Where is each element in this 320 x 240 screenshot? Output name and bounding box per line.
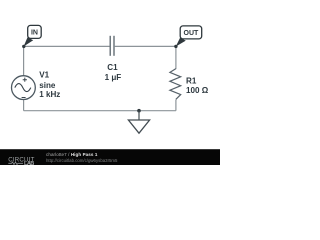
footer title text <box>46 152 97 157</box>
node IN junction dot <box>22 45 25 48</box>
voltage source V1 minus sign <box>22 97 26 99</box>
node OUT flag pointer <box>176 38 186 47</box>
CircuitLab logo wordmark <box>0 1 45 18</box>
ground triangle <box>128 120 149 133</box>
capacitor C1 value labels <box>105 63 122 82</box>
ground stem <box>138 111 140 120</box>
ground junction dot <box>137 109 141 113</box>
resistor R1 zigzag <box>170 69 181 100</box>
svg-text:R1: R1 <box>186 77 197 86</box>
svg-text:LAB: LAB <box>24 161 35 165</box>
svg-text:OUT: OUT <box>184 30 200 37</box>
wire top-left segment (IN node to C1 left plate) <box>24 45 110 47</box>
svg-text:1 kHz: 1 kHz <box>39 90 60 99</box>
resistor R1 value labels <box>186 77 209 96</box>
svg-text:V1: V1 <box>39 71 49 80</box>
capacitor C1 right plate <box>113 36 115 56</box>
wire bottom rail <box>24 110 176 112</box>
node OUT junction dot <box>174 45 177 48</box>
node OUT flag box <box>180 26 202 39</box>
wire left branch lower (V1 bottom to bottom rail) <box>23 99 25 110</box>
voltage source V1 circle <box>12 76 36 100</box>
capacitor C1 left plate <box>109 36 111 56</box>
svg-text:1 μF: 1 μF <box>105 73 122 82</box>
node IN flag box <box>28 25 42 38</box>
node IN flag pointer <box>24 37 34 46</box>
svg-text:C1: C1 <box>107 63 118 72</box>
svg-text:IN: IN <box>31 29 38 36</box>
wire right branch lower (R1 bottom to bottom rail) <box>175 100 177 111</box>
wire top-right segment (C1 right plate to OUT node) <box>115 45 176 47</box>
voltage source V1 labels <box>39 71 60 99</box>
voltage source V1 plus sign <box>23 78 27 82</box>
wire left branch upper (IN node down to V1 top) <box>23 46 25 76</box>
footer url text <box>46 158 117 163</box>
svg-text:sine: sine <box>39 81 56 90</box>
voltage source V1 sine wave <box>15 84 31 92</box>
footer bar <box>0 149 220 166</box>
svg-text:100 Ω: 100 Ω <box>186 86 209 95</box>
wire right branch upper (OUT node down to R1 top) <box>175 46 177 69</box>
